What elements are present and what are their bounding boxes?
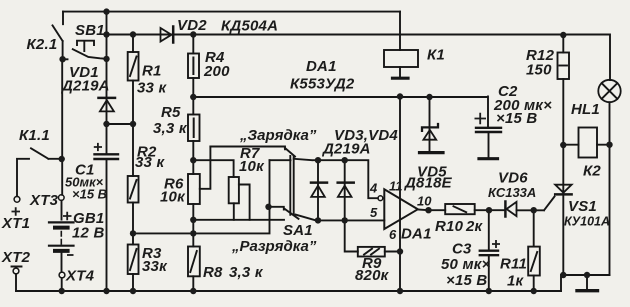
svg-text:SB1: SB1	[75, 22, 105, 39]
svg-text:R11: R11	[500, 256, 527, 273]
svg-text:К2.1: К2.1	[27, 36, 58, 53]
svg-text:SA1: SA1	[283, 222, 313, 239]
svg-text:C3: C3	[452, 241, 472, 258]
svg-text:„Разрядка”: „Разрядка”	[231, 238, 317, 255]
svg-text:10: 10	[417, 194, 432, 209]
svg-text:33 к: 33 к	[137, 80, 167, 97]
svg-text:DA1: DA1	[401, 226, 432, 243]
svg-text:К2: К2	[583, 163, 601, 180]
svg-text:200: 200	[203, 63, 230, 80]
svg-text:R1: R1	[142, 63, 162, 80]
svg-text:HL1: HL1	[571, 101, 600, 118]
svg-text:3,3 к: 3,3 к	[153, 120, 188, 137]
svg-text:33к: 33к	[142, 258, 168, 275]
svg-text:К1: К1	[427, 47, 445, 64]
svg-text:4: 4	[369, 181, 378, 196]
svg-text:10к: 10к	[239, 158, 265, 175]
svg-text:ХТ1: ХТ1	[1, 215, 30, 232]
svg-text:VD2: VD2	[177, 17, 207, 34]
svg-text:150: 150	[526, 62, 552, 79]
svg-text:Д219А: Д219А	[60, 78, 110, 95]
svg-text:Д818Е: Д818Е	[403, 175, 453, 192]
svg-text:×15 В: ×15 В	[72, 187, 107, 202]
svg-text:VD6: VD6	[498, 170, 528, 187]
svg-text:ХТ2: ХТ2	[1, 249, 31, 266]
svg-text:11: 11	[389, 179, 403, 194]
svg-text:R5: R5	[161, 104, 181, 121]
svg-text:2к: 2к	[465, 218, 484, 235]
svg-text:50 мк×: 50 мк×	[441, 256, 491, 273]
svg-text:12 В: 12 В	[72, 225, 105, 242]
svg-text:10к: 10к	[160, 189, 186, 206]
svg-text:33 к: 33 к	[135, 154, 165, 171]
svg-text:К1.1: К1.1	[19, 127, 50, 144]
svg-text:1к: 1к	[507, 273, 525, 290]
svg-text:К553УД2: К553УД2	[290, 76, 355, 93]
svg-text:820к: 820к	[355, 267, 390, 284]
svg-text:×15 В: ×15 В	[446, 272, 487, 289]
svg-text:„Зарядка”: „Зарядка”	[239, 127, 317, 144]
svg-text:×15 В: ×15 В	[496, 110, 537, 127]
svg-text:3,3 к: 3,3 к	[229, 264, 264, 281]
svg-text:R8: R8	[203, 264, 223, 281]
svg-text:VS1: VS1	[568, 198, 597, 215]
svg-text:Д219А: Д219А	[321, 141, 371, 158]
svg-text:ХТ4: ХТ4	[65, 268, 95, 285]
svg-text:5: 5	[370, 205, 378, 220]
svg-text:R10: R10	[435, 218, 464, 235]
svg-text:DA1: DA1	[306, 58, 337, 75]
svg-text:ХТ3: ХТ3	[29, 192, 59, 209]
svg-text:КУ101А: КУ101А	[564, 215, 610, 229]
svg-text:КД504А: КД504А	[221, 18, 278, 35]
svg-text:6: 6	[389, 227, 397, 242]
svg-text:КС133А: КС133А	[488, 185, 536, 200]
